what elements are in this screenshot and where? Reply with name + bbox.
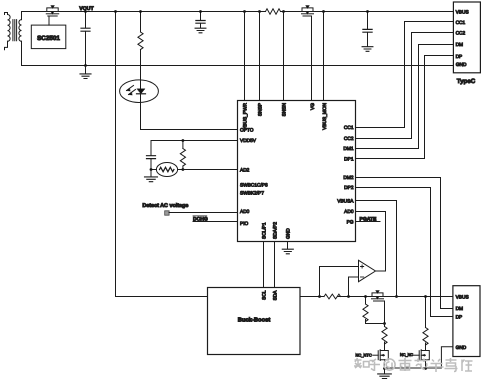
svg-text:PG: PG [347, 220, 354, 226]
wire AD2 [183, 169, 238, 171]
wire PG / PGATE [356, 221, 381, 223]
resistor R7 discharge [423, 297, 428, 348]
ground G1 [80, 66, 91, 79]
wire Q4 source to gnd rail [384, 362, 386, 369]
wire VBUS/VOUT top rail [22, 11, 266, 13]
resistor R3 [180, 141, 185, 170]
wire VBUS_MON [323, 12, 325, 101]
connector J2 USB-A [453, 286, 480, 357]
svg-text:SWBK2/P7: SWBK2/P7 [240, 190, 264, 196]
svg-text:SNSP: SNSP [257, 103, 263, 116]
svg-text:SCL: SCL [261, 290, 267, 300]
svg-text:SNSN: SNSN [281, 102, 287, 116]
node C3-RT1 junction [150, 168, 153, 171]
svg-text:Detect AC voltage: Detect AC voltage [142, 203, 188, 209]
mosfet Q1 sync rectifier [46, 6, 58, 17]
node VOUT-C4 junction [366, 10, 369, 13]
svg-text:DM1: DM1 [343, 146, 353, 152]
node op-amp + tap [318, 295, 321, 298]
wire DM2 [356, 178, 453, 309]
svg-text:CC2: CC2 [344, 136, 354, 142]
wire VG gate [311, 16, 313, 101]
svg-text:DM2: DM2 [343, 175, 353, 181]
svg-text:AD2: AD2 [240, 167, 250, 173]
mosfet Q5 [414, 347, 430, 362]
node op-amp - tap [347, 295, 350, 298]
svg-text:VBUSA: VBUSA [337, 199, 354, 205]
svg-text:VBUS: VBUS [456, 9, 469, 15]
svg-text:SC2501: SC2501 [37, 35, 60, 42]
svg-text:NC_NTC: NC_NTC [356, 353, 372, 358]
node Q4-gnd junction [383, 367, 386, 370]
wire SNSP [259, 12, 261, 101]
ground G4 [145, 177, 158, 182]
wire OPTO [141, 129, 238, 131]
capacitor C1 [81, 12, 90, 66]
wire Q1 gate to U1 [48, 16, 50, 25]
transformer T1 [5, 12, 22, 66]
pad AC detect [165, 211, 169, 215]
connector J1 TypeC [453, 2, 480, 73]
node Q5-gnd junction [424, 367, 427, 370]
thermistor RT1 [151, 163, 183, 177]
wire AD0 to op-amp output [356, 212, 386, 272]
svg-text:VG: VG [310, 103, 316, 110]
op-amp U3 [359, 260, 376, 281]
wire DM1 [356, 45, 454, 149]
wire Q3 gate [384, 301, 386, 324]
node VOUT-C2 junction [199, 10, 202, 13]
wire SCL [263, 242, 265, 288]
wire DP2 [356, 188, 453, 317]
svg-text:CC2: CC2 [456, 30, 466, 36]
svg-text:GND: GND [286, 228, 292, 239]
node VOUT-C1 junction [84, 10, 87, 13]
node VBUS_MON junction [322, 10, 325, 13]
mosfet Q4 [373, 347, 389, 362]
wire CC2 [356, 33, 454, 139]
svg-text:DP1: DP1 [344, 156, 354, 162]
svg-text:PIO: PIO [240, 221, 249, 227]
ground G2 [195, 28, 206, 33]
ground G6 [378, 368, 392, 379]
ground G3 [362, 47, 373, 52]
wire CC1 [356, 22, 454, 128]
capacitor C4 [363, 12, 372, 47]
wire VDD5V [151, 140, 238, 142]
svg-text:VDD5V: VDD5V [240, 138, 257, 144]
wire PIO DCHG [193, 221, 238, 223]
wire op-amp plus input [320, 267, 359, 297]
node Q3 gate-R5 junction [383, 322, 386, 325]
wire DP1 [356, 56, 454, 159]
IC U1 SC2501 [31, 25, 66, 48]
node rail-R7 junction [424, 295, 427, 298]
node SNSN junction [282, 10, 285, 13]
svg-text:SDA: SDA [273, 290, 279, 301]
node VOUT-R1 junction [139, 10, 142, 13]
wire SNSN [283, 12, 285, 101]
svg-text:VOUT: VOUT [79, 6, 94, 12]
svg-text:CC1: CC1 [456, 20, 466, 26]
ground G5 [282, 249, 293, 254]
mosfet Q2 VBUS switch [302, 6, 314, 17]
svg-text:DP: DP [456, 54, 463, 60]
resistor R2 VBUS sense [266, 9, 281, 14]
wire USB-A gnd [385, 347, 453, 368]
node R3-AD2 junction [182, 168, 185, 171]
LED opto D1 [120, 80, 159, 103]
wire AD0 [169, 212, 237, 214]
wire SDA [274, 242, 276, 288]
node VBUSA junction [395, 295, 398, 298]
resistor R6 [382, 324, 387, 348]
svg-text:SWBC1C/P8: SWBC1C/P8 [240, 182, 268, 188]
wire GND rail [22, 65, 454, 67]
wire VBUSA [356, 201, 397, 297]
node SNSP junction [258, 10, 261, 13]
module Buck-Boost [208, 288, 301, 355]
IC U2 PD controller [238, 101, 356, 242]
svg-text:NC_NC: NC_NC [400, 353, 413, 357]
wire VBUS_PWR [244, 12, 246, 101]
resistor R1 (LED series) [138, 12, 143, 130]
node VDD5V-R3 junction [182, 139, 185, 142]
svg-text:DP: DP [456, 315, 463, 321]
node VBUS_PWR junction [243, 10, 246, 13]
wire op-amp minus input [349, 277, 359, 297]
svg-text:AD0: AD0 [240, 209, 250, 215]
svg-text:AD0: AD0 [344, 209, 354, 215]
wire VOUT feed to buck-boost [116, 12, 208, 297]
capacitor C2 [196, 12, 205, 29]
watermark zhihu [354, 358, 473, 372]
svg-text:DP2: DP2 [344, 185, 354, 191]
svg-text:VBUS_MON: VBUS_MON [322, 102, 328, 129]
svg-text:VBUS: VBUS [456, 295, 469, 301]
node GND-C1 junction [84, 64, 87, 67]
svg-text:SCL/P1: SCL/P1 [261, 222, 267, 239]
wire U2 GND [287, 242, 289, 250]
node rail-R5 junction [364, 295, 367, 298]
svg-text:VBUS_PWR: VBUS_PWR [242, 102, 248, 129]
svg-text:GND: GND [456, 345, 467, 351]
wire buck-boost output rail [300, 296, 324, 298]
node VOUT feed junction [114, 10, 117, 13]
svg-text:DM: DM [456, 42, 463, 48]
svg-text:Buck-Boost: Buck-Boost [238, 317, 271, 324]
resistor R5 gate-source [363, 297, 385, 324]
svg-text:GND: GND [456, 62, 467, 68]
resistor R4 shunt [324, 294, 340, 299]
svg-text:SDA/P2: SDA/P2 [273, 222, 279, 239]
wire Q5 source [425, 362, 427, 369]
svg-text:CC1: CC1 [344, 125, 354, 131]
capacitor C3 [147, 141, 156, 177]
svg-text:TypeC: TypeC [457, 78, 476, 85]
svg-text:DM: DM [456, 306, 463, 312]
mosfet Q3 output switch [372, 291, 385, 302]
